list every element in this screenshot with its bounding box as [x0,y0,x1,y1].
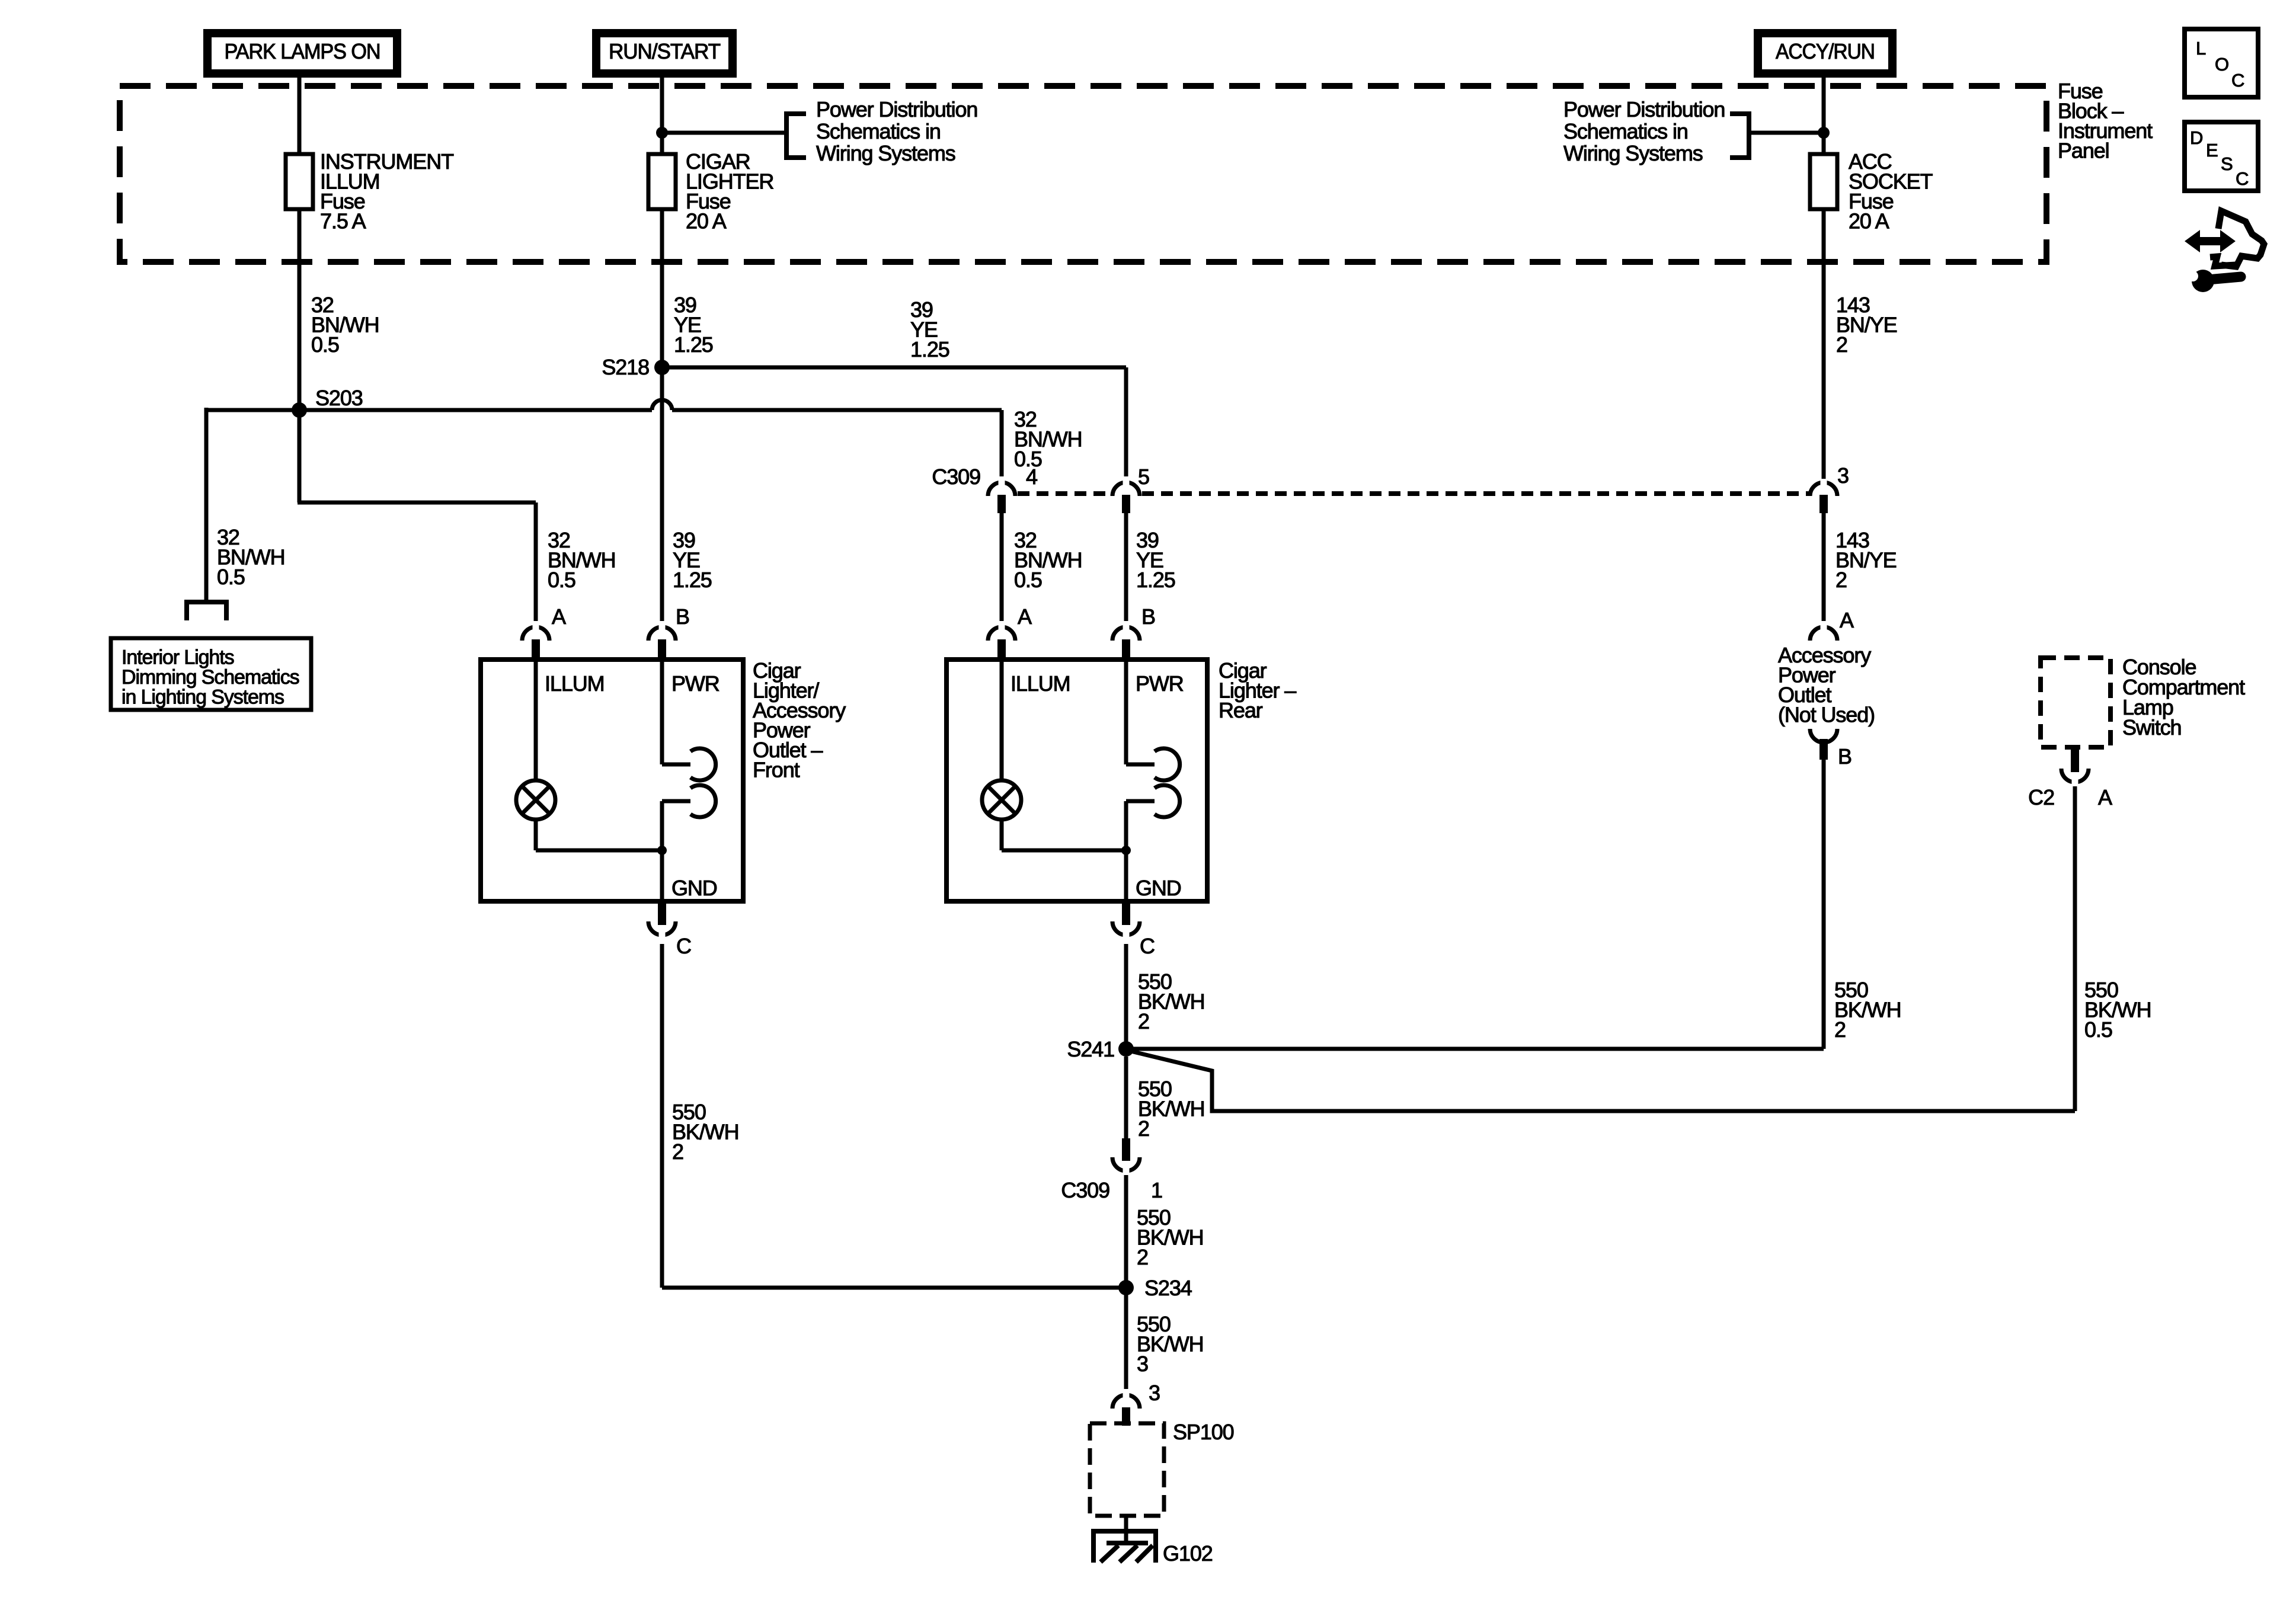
label C309 (top) [932,465,980,489]
connector to interior lights (bracket) [187,602,226,620]
label PWR rear [1136,671,1184,696]
label pin B rear [1141,604,1155,629]
svg-text:D: D [2190,127,2202,148]
contact hook lower rear [1155,785,1180,817]
svg-text:C: C [1140,934,1155,958]
connector pin C front [648,902,676,941]
wire label 143 BN/YE 2 lower [1835,528,1897,592]
label pin A front [552,604,566,629]
svg-text:2: 2 [1138,1116,1149,1141]
wire label 550 BK/WH 2 bottom [1137,1205,1204,1269]
label pin B front [676,604,689,629]
icon box DESC [2185,122,2258,191]
label Power Distribution Schematics in Wiring Systems (right) [1563,97,1725,165]
ground symbol G102 [1101,1543,1153,1562]
wire label 550 BK/WH 0.5 console [2084,978,2151,1042]
svg-text:E: E [2206,140,2218,161]
lamp front outlet [516,780,555,820]
svg-text:O: O [2215,54,2228,75]
contact hook upper front [690,748,716,780]
junction S241 [1118,1041,1134,1057]
svg-text:5: 5 [1138,465,1149,489]
wire S203 to interior lights connector [206,408,299,600]
svg-text:3: 3 [1837,463,1849,488]
label G102 [1163,1541,1213,1566]
svg-text:Power Distribution: Power Distribution [1563,97,1725,121]
ground bracket G102 [1093,1531,1156,1563]
svg-text:A: A [2098,785,2112,809]
label C309 (bottom) [1061,1178,1109,1202]
wire RUN/START feed to fuse [660,78,664,155]
wire front ground to pin C [660,850,664,901]
svg-text:ACCY/RUN: ACCY/RUN [1776,39,1875,63]
wire front illum to lamp [534,660,538,780]
label pin A console [2098,785,2112,809]
svg-text:2: 2 [1835,568,1847,592]
label pin 5 [1138,465,1149,489]
svg-text:Power Distribution: Power Distribution [816,97,977,121]
wire label 550 BK/WH 2 below S241 [1138,1077,1205,1141]
wire label 39 YE 1.25 front pwr [673,528,712,592]
svg-text:2: 2 [1834,1017,1846,1042]
wire C309 pin 4 to rear outlet pin A [1000,511,1004,629]
svg-text:Front: Front [753,758,800,782]
wire C309 pin 5 to rear outlet pin B [1124,511,1128,629]
wire S218 to C309 pin 5 [662,367,1126,479]
svg-text:L: L [2196,38,2206,59]
wire S241 to console switch [1126,1050,2075,1111]
wire S203 to C309 pin 4 (hops over run/start wire) [299,400,1002,479]
svg-text:Wiring Systems: Wiring Systems [816,141,955,165]
junction S203 [292,402,307,418]
svg-text:G102: G102 [1163,1541,1213,1566]
svg-text:PWR: PWR [671,671,720,696]
svg-text:ILLUM: ILLUM [1011,671,1070,696]
label ILLUM front [545,671,605,696]
label S218 [602,355,649,379]
component box cigar lighter - rear [946,660,1207,901]
connector splice pin 3 [1112,1389,1140,1426]
label pin A accessory [1840,608,1854,632]
label Power Distribution Schematics in Wiring Systems (left) [816,97,977,165]
svg-text:A: A [552,604,566,629]
wire fuse to C309 pin 3 [1822,209,1826,479]
label C2 [2028,785,2054,809]
label pin 3 [1837,463,1849,488]
svg-text:2: 2 [1836,332,1847,357]
label pin B accessory [1838,744,1851,769]
junction for power distribution callout (left) [656,127,668,139]
label S241 [1067,1037,1114,1061]
label PWR front [671,671,720,696]
callout bracket Power Distribution right [1730,114,1824,158]
contact hook upper rear [1155,748,1180,780]
wire S234 to SP100 [1124,1288,1128,1391]
wire accessory outlet to S241 branch [1822,758,1826,1049]
svg-text:S: S [2221,153,2233,174]
connector pin A accessory outlet [1810,621,1837,641]
label GND front [671,876,717,900]
wire rear pin C to S241 [1124,944,1128,1049]
wire rear pwr to contact [1126,660,1155,764]
icon adjust/repair (arrow, pointer outline, wrench) [2185,211,2264,292]
svg-text:3: 3 [1149,1381,1160,1405]
label Cigar Lighter - Rear [1219,658,1296,722]
wire rear illum to lamp [1000,660,1004,780]
svg-text:A: A [1840,608,1854,632]
svg-text:0.5: 0.5 [2084,1017,2112,1042]
svg-text:7.5 A: 7.5 A [320,209,366,233]
icon box LOC [2185,29,2258,97]
connector pin B rear [1112,621,1140,658]
label Accessory Power Outlet (Not Used) [1778,643,1875,727]
wire label 32 BN/WH 0.5 park column [311,293,379,357]
svg-text:Interior Lights: Interior Lights [121,646,234,669]
svg-text:3: 3 [1137,1352,1148,1376]
wire S241 to C309 pin 1 [1124,1057,1128,1144]
wire label 39 YE 1.25 upper branch [910,297,949,361]
connector C309 pin 5 [1112,476,1140,513]
wire front lower contact [662,801,690,850]
svg-text:C309: C309 [932,465,980,489]
wire SP100 to ground [1124,1516,1128,1541]
svg-text:S234: S234 [1144,1276,1192,1300]
fuse CIGAR LIGHTER [648,154,676,209]
wire S218 to front outlet pin B [660,367,664,629]
fuse ACC SOCKET [1810,154,1837,209]
svg-text:RUN/START: RUN/START [609,39,721,63]
wire label 32 BN/WH 0.5 left branch [217,525,285,589]
junction for power distribution callout (right) [1818,127,1830,139]
svg-text:C309: C309 [1061,1178,1109,1202]
label S203 [315,386,363,410]
label CIGAR LIGHTER Fuse 20 A [686,149,773,233]
connector pin C rear [1112,902,1140,941]
wire S241 to accessory outlet [1126,1047,1824,1051]
svg-text:B: B [1141,604,1155,629]
svg-text:Schematics in: Schematics in [816,119,941,143]
svg-text:2: 2 [1137,1245,1148,1269]
svg-text:B: B [1838,744,1851,769]
svg-text:S203: S203 [315,386,363,410]
connector C309 pin 3 [1810,476,1837,513]
connector C309 pin 4 [988,476,1015,513]
wire label 39 YE 1.25 run column [674,293,713,357]
wire rear lamp to ground junction [1002,820,1126,850]
wire rear ground to pin C [1124,850,1128,901]
svg-text:PWR: PWR [1136,671,1184,696]
power feed label ACCY/RUN [1754,29,1897,78]
label Console Compartment Lamp Switch [2122,655,2245,740]
connector console switch pin A [2061,750,2089,788]
wire front ground to S234 run [662,944,1126,1288]
component box cigar lighter/accessory power outlet - front [481,660,743,901]
svg-text:0.5: 0.5 [548,568,575,592]
wire ACCY/RUN feed to fuse [1822,78,1826,155]
label pin C rear [1140,934,1155,958]
svg-text:C: C [2231,70,2244,91]
label INSTRUMENT ILLUM Fuse 7.5 A [320,149,454,233]
svg-text:S218: S218 [602,355,649,379]
svg-text:0.5: 0.5 [217,565,245,589]
svg-text:GND: GND [1136,876,1181,900]
connector pin B accessory outlet [1810,729,1837,760]
svg-text:1.25: 1.25 [1136,568,1175,592]
wire label 39 YE 1.25 rear pwr [1136,528,1175,592]
label pin 1 [1151,1178,1162,1202]
svg-text:C2: C2 [2028,785,2054,809]
lamp rear outlet [982,780,1021,820]
label ACC SOCKET Fuse 20 A [1849,149,1933,233]
contact hook lower front [690,785,716,817]
svg-text:1.25: 1.25 [674,332,713,357]
wire fuse to S218 [660,209,664,367]
label pin 3 splice [1149,1381,1160,1405]
wire console switch to S241 branch [2073,786,2077,1111]
svg-text:A: A [1018,604,1032,629]
label pin A rear [1018,604,1032,629]
power feed label PARK LAMPS ON [203,29,401,78]
junction front ground [657,846,667,855]
wire label 550 BK/WH 2 above S241 [1138,969,1205,1033]
label pin C front [676,934,691,958]
svg-text:ILLUM: ILLUM [545,671,605,696]
power feed label RUN/START [592,29,737,78]
wire label 550 BK/WH 2 accessory [1834,978,1901,1042]
label SP100 [1173,1420,1234,1444]
svg-text:1.25: 1.25 [910,337,949,361]
svg-text:S241: S241 [1067,1037,1114,1061]
wire label 550 BK/WH 3 [1137,1312,1204,1376]
fuse block - instrument panel dashed outline [120,86,2046,262]
svg-text:GND: GND [671,876,717,900]
component box console compartment lamp switch (dashed) [2041,658,2110,747]
svg-text:Wiring Systems: Wiring Systems [1563,141,1703,165]
svg-text:Rear: Rear [1219,698,1263,722]
svg-text:2: 2 [1138,1009,1149,1033]
callout bracket Power Distribution left [662,114,806,158]
svg-text:0.5: 0.5 [311,332,339,357]
svg-text:20 A: 20 A [686,209,727,233]
wire S203 to front outlet pin A [298,410,536,629]
wire label 143 BN/YE 2 upper [1836,293,1897,357]
wire label 32 BN/WH 0.5 front illum [548,528,616,592]
connector pin B front [648,621,676,658]
wire label 32 BN/WH 0.5 mid branch [1014,407,1082,471]
svg-text:Switch: Switch [2122,715,2181,740]
svg-text:20 A: 20 A [1849,209,1889,233]
wire label 32 BN/WH 0.5 rear illum [1014,528,1082,592]
svg-text:SP100: SP100 [1173,1420,1234,1444]
svg-text:Panel: Panel [2058,139,2109,163]
svg-text:in Lighting Systems: in Lighting Systems [121,686,284,709]
wire fuse to S203 [298,209,302,410]
label S234 [1144,1276,1192,1300]
svg-text:4: 4 [1026,465,1037,489]
svg-text:1: 1 [1151,1178,1162,1202]
connector C309 pin 1 [1112,1138,1140,1177]
label ILLUM rear [1011,671,1070,696]
splice pack SP100 dashed box [1090,1423,1164,1516]
wire PARK LAMPS ON feed to fuse [298,78,302,155]
dashed harness line at C309 [1018,491,1809,496]
svg-text:C: C [676,934,691,958]
svg-text:2: 2 [672,1140,683,1164]
label pin 4 [1026,465,1037,489]
connector pin A rear [988,621,1015,658]
fuse INSTRUMENT ILLUM [286,154,313,209]
wire C309 pin 1 to S234 [1124,1175,1128,1288]
svg-text:(Not Used): (Not Used) [1778,703,1875,727]
label Cigar Lighter/Accessory Power Outlet - Front [753,658,846,782]
label GND rear [1136,876,1181,900]
wire front pwr to contact [662,660,690,764]
connector pin A front [522,621,549,658]
callout box Interior Lights Dimming Schematics in Lighting Systems [111,638,311,710]
wire front lamp to ground junction [536,820,662,850]
wire label 550 BK/WH 2 front ground [672,1100,739,1164]
svg-text:0.5: 0.5 [1014,568,1042,592]
svg-text:C: C [2236,168,2249,189]
junction S234 [1118,1280,1134,1295]
junction rear ground [1121,846,1131,855]
wire rear lower contact [1126,801,1155,850]
svg-text:PARK LAMPS ON: PARK LAMPS ON [225,39,380,63]
svg-text:B: B [676,604,689,629]
junction S218 [654,360,670,375]
svg-text:1.25: 1.25 [673,568,712,592]
svg-text:Dimming Schematics: Dimming Schematics [121,666,299,689]
svg-text:Schematics in: Schematics in [1563,119,1688,143]
wire C309 pin 3 to accessory outlet pin A [1822,511,1826,629]
label Fuse Block - Instrument Panel [2058,79,2153,163]
